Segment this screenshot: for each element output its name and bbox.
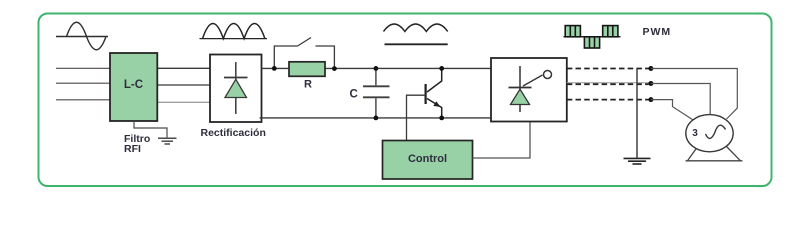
wire: DC- bus <box>260 117 491 119</box>
wire: 3-phase input lines <box>56 68 110 100</box>
wire: L-C to ground <box>134 121 167 138</box>
ac supply waveform <box>56 22 108 50</box>
svg-text:L-C: L-C <box>124 79 143 91</box>
wire: inverter output dashed lines <box>567 69 649 100</box>
diode D1 (rectifier) <box>224 62 248 114</box>
svg-text:R: R <box>304 79 312 91</box>
svg-text:RFI: RFI <box>124 143 141 155</box>
thyristor U1 (inverter) <box>509 66 552 112</box>
rectified waveform <box>200 24 268 39</box>
svg-text:C: C <box>350 89 358 101</box>
label Filtro RFI <box>124 133 150 155</box>
ground (Filtro RFI) <box>158 138 177 144</box>
PWM waveform symbol <box>564 26 621 48</box>
switch S1 (resistor bypass) <box>274 38 334 69</box>
inverter box <box>491 58 567 122</box>
filter block L-C <box>110 53 157 121</box>
inductor L (choke) <box>384 24 448 44</box>
ground (output) <box>624 158 651 164</box>
wire: ground conductor <box>636 69 638 159</box>
motor M1 (3~) <box>686 115 743 161</box>
node: collector <box>439 66 444 71</box>
node: phase 1 <box>648 66 653 71</box>
svg-text:3: 3 <box>692 128 698 139</box>
capacitor C <box>363 68 390 118</box>
node: R left <box>272 66 277 71</box>
node: cap top <box>374 66 379 71</box>
wire: L-C to rectifier lines <box>157 68 210 102</box>
svg-text:Control: Control <box>408 153 447 165</box>
svg-text:Rectificación: Rectificación <box>201 127 266 139</box>
node: emitter <box>439 116 444 121</box>
wire: control to inverter <box>473 122 531 159</box>
wire: phase 2 to motor <box>651 84 710 115</box>
wire: phase 1 to motor <box>651 69 737 120</box>
transistor Q1 (chopper) <box>426 68 442 118</box>
wire: middle phase solid underlay <box>567 82 651 84</box>
node: phase 3 <box>648 97 653 102</box>
node: R right <box>332 66 337 71</box>
node: cap bottom <box>374 116 379 121</box>
wire: phase 3 to motor <box>651 100 694 121</box>
wire: DC+ bus <box>262 67 492 69</box>
resistor R <box>289 62 325 77</box>
svg-text:PWM: PWM <box>643 26 672 38</box>
node: phase 2 <box>648 81 653 86</box>
rectifier box <box>210 55 262 123</box>
wire: base drive <box>407 95 426 140</box>
control block <box>383 141 473 180</box>
